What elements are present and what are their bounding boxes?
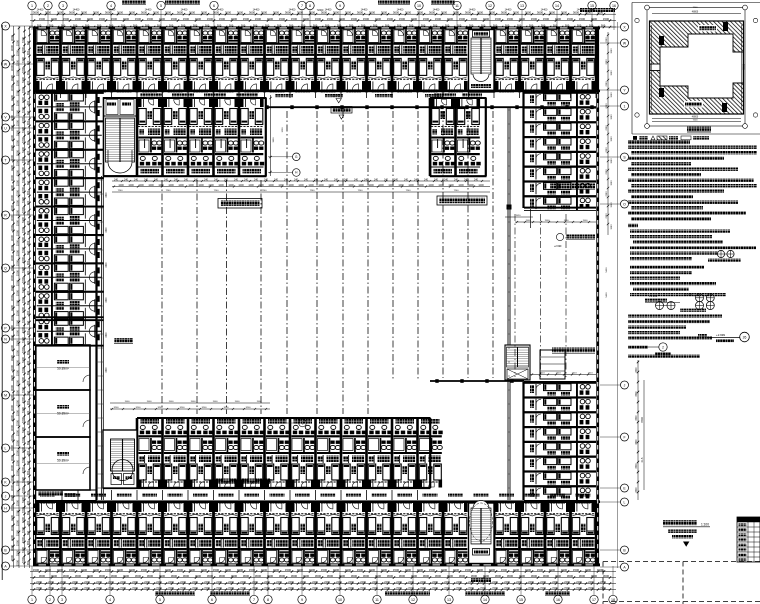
right band window gaps (597, 94, 599, 99)
svg-text:2400: 2400 (132, 580, 138, 584)
svg-text:7200: 7200 (168, 586, 174, 590)
svg-text:900: 900 (26, 210, 30, 215)
svg-text:3600: 3600 (10, 434, 14, 441)
svg-text:3600: 3600 (10, 504, 14, 511)
svg-text:3600: 3600 (10, 64, 14, 71)
svg-text:7200: 7200 (21, 506, 25, 513)
level mark with circle 26 (707, 337, 740, 339)
svg-text:3400: 3400 (106, 262, 108, 268)
svg-text:3600: 3600 (423, 574, 430, 578)
svg-text:7200: 7200 (72, 586, 78, 590)
bottom band room module 12 (316, 501, 341, 564)
svg-text:2400: 2400 (120, 580, 126, 584)
svg-text:2400: 2400 (228, 580, 234, 584)
svg-text:240: 240 (204, 178, 209, 181)
inner bottom wing module 12 (341, 418, 366, 488)
svg-text:7200: 7200 (228, 586, 234, 590)
bottom band room module 16 (418, 501, 443, 564)
left band room row 7 (36, 262, 104, 292)
svg-text:1500: 1500 (231, 17, 238, 21)
svg-text:7200: 7200 (360, 586, 366, 590)
svg-text:1200: 1200 (378, 184, 384, 187)
svg-text:3600: 3600 (429, 11, 436, 15)
top band bottom wall (33, 90, 600, 93)
svg-text:3600: 3600 (219, 574, 226, 578)
top band room module 9 (239, 29, 264, 92)
svg-text:1500: 1500 (15, 159, 19, 166)
svg-text:1500: 1500 (585, 568, 592, 572)
svg-text:900: 900 (26, 240, 30, 245)
svg-text:3600: 3600 (10, 414, 14, 421)
left band room row 3 (36, 149, 104, 179)
svg-text:1500: 1500 (519, 17, 526, 21)
interior dim chain at wing right (270, 95, 272, 176)
svg-text:240: 240 (474, 178, 479, 181)
svg-text:3600: 3600 (417, 11, 424, 15)
svg-text:7200: 7200 (21, 66, 25, 73)
left band room row 2 (36, 120, 104, 150)
svg-text:3600: 3600 (39, 574, 46, 578)
top band room module 19 (494, 29, 519, 92)
svg-text:1500: 1500 (15, 369, 19, 376)
svg-text:240: 240 (174, 178, 179, 181)
svg-text:3600: 3600 (10, 304, 14, 311)
svg-text:4: 4 (110, 4, 112, 8)
svg-text:2400: 2400 (420, 580, 426, 584)
right band lower room row 6 (524, 456, 596, 471)
svg-text:7200: 7200 (21, 486, 25, 493)
svg-text:240: 240 (304, 178, 309, 181)
svg-text:3600: 3600 (363, 574, 370, 578)
svg-text:1500: 1500 (147, 401, 153, 403)
svg-text:3600: 3600 (249, 11, 256, 15)
roof detail inner labels (698, 25, 717, 32)
svg-text:1500: 1500 (15, 169, 19, 176)
svg-text:14: 14 (555, 4, 559, 8)
svg-text:1500: 1500 (15, 539, 19, 546)
svg-text:7200: 7200 (21, 46, 25, 53)
svg-text:1500: 1500 (15, 189, 19, 196)
svg-text:1500: 1500 (303, 17, 310, 21)
svg-text:7200: 7200 (408, 586, 414, 590)
inner bottom wing module 6 (188, 418, 213, 488)
svg-text:7200: 7200 (180, 586, 186, 590)
right band room row 4 (524, 136, 596, 151)
inner bottom wing module 13 (367, 418, 392, 488)
svg-text:240: 240 (424, 178, 429, 181)
svg-text:L: L (5, 446, 7, 450)
svg-text:7200: 7200 (21, 496, 25, 503)
svg-text:2400: 2400 (408, 580, 414, 584)
svg-text:1500: 1500 (15, 359, 19, 366)
svg-text:7200: 7200 (21, 536, 25, 543)
svg-text:1200: 1200 (288, 184, 294, 187)
svg-text:240: 240 (384, 178, 389, 181)
note line 7 (628, 179, 754, 182)
svg-text:3600: 3600 (10, 374, 14, 381)
roof detail black blocks (723, 22, 728, 31)
svg-text:3600: 3600 (549, 11, 556, 15)
svg-text:900: 900 (26, 480, 30, 485)
bottom band room module 2 (61, 501, 86, 564)
svg-text:1200: 1200 (278, 184, 284, 187)
svg-text:1500: 1500 (183, 17, 190, 21)
svg-text:7200: 7200 (384, 586, 390, 590)
svg-text:3600: 3600 (10, 404, 14, 411)
svg-text:3600: 3600 (10, 44, 14, 51)
svg-text:7200: 7200 (21, 246, 25, 253)
svg-text:1500: 1500 (15, 549, 19, 556)
svg-text:1500: 1500 (159, 17, 166, 21)
small title labels above plan (122, 1, 146, 5)
svg-text:1500: 1500 (15, 449, 19, 456)
svg-text:7200: 7200 (21, 396, 25, 403)
svg-text:3083: 3083 (611, 202, 613, 208)
legend row (633, 136, 637, 140)
inner top wing module 4 (137, 98, 162, 176)
svg-text:1500: 1500 (279, 17, 286, 21)
svg-text:1500: 1500 (501, 568, 508, 572)
svg-text:3600: 3600 (636, 439, 638, 445)
svg-text:2383: 2383 (606, 213, 608, 219)
svg-text:1500: 1500 (15, 249, 19, 256)
svg-text:2400: 2400 (144, 580, 150, 584)
top band room module 2 (61, 29, 86, 92)
svg-text:1500: 1500 (405, 568, 412, 572)
svg-text:7200: 7200 (48, 586, 54, 590)
svg-text:7240: 7240 (262, 190, 268, 192)
top band room module 15 (392, 29, 417, 92)
svg-text:900: 900 (26, 190, 30, 195)
svg-text:3600: 3600 (477, 11, 484, 15)
left band room row 5 (36, 206, 104, 236)
svg-text:240: 240 (334, 178, 339, 181)
svg-text:1500: 1500 (15, 559, 19, 566)
svg-text:900: 900 (26, 140, 30, 145)
svg-text:3600: 3600 (369, 11, 376, 15)
svg-text:3600: 3600 (129, 11, 136, 15)
svg-text:7200: 7200 (21, 346, 25, 353)
svg-text:1500: 1500 (125, 401, 131, 403)
svg-text:5: 5 (159, 598, 161, 602)
svg-text:900: 900 (26, 490, 30, 495)
svg-text:900: 900 (26, 310, 30, 315)
svg-text:3600: 3600 (495, 574, 502, 578)
svg-text:3600: 3600 (10, 544, 14, 551)
svg-text:7240: 7240 (454, 190, 460, 192)
right band lower room row 4 (524, 426, 596, 441)
svg-text:J: J (624, 383, 626, 387)
note2 line 11 (633, 288, 689, 291)
inner bottom wing top wall (137, 417, 431, 419)
svg-text:1500: 1500 (177, 568, 184, 572)
svg-text:1500: 1500 (15, 409, 19, 416)
large room (36, 345, 90, 390)
svg-text:900: 900 (26, 440, 30, 445)
svg-text:7200: 7200 (21, 516, 25, 523)
svg-text:1500: 1500 (15, 99, 19, 106)
svg-text:1500: 1500 (213, 568, 220, 572)
svg-text:3200: 3200 (136, 407, 142, 409)
svg-text:7200: 7200 (60, 586, 66, 590)
svg-text:900: 900 (26, 400, 30, 405)
svg-text:7200: 7200 (96, 586, 102, 590)
svg-text:1200: 1200 (398, 184, 404, 187)
svg-text:1500: 1500 (225, 568, 232, 572)
svg-text:7200: 7200 (21, 276, 25, 283)
bottom underlined section labels (155, 591, 195, 594)
svg-text:L: L (624, 500, 626, 504)
svg-text:3600: 3600 (267, 574, 274, 578)
svg-text:900: 900 (26, 390, 30, 395)
bottom band room module 11 (290, 501, 315, 564)
svg-text:3600: 3600 (303, 574, 310, 578)
corridor room number smudges above wing (140, 93, 162, 96)
svg-text:900: 900 (26, 500, 30, 505)
svg-text:2400: 2400 (192, 580, 198, 584)
roof detail white courtyard cross (660, 34, 743, 98)
svg-text:3600: 3600 (636, 367, 638, 373)
svg-text:1500: 1500 (15, 319, 19, 326)
svg-text:6: 6 (211, 598, 213, 602)
svg-text:3083: 3083 (611, 180, 613, 186)
svg-text:1200: 1200 (158, 184, 164, 187)
svg-text:1500: 1500 (411, 17, 418, 21)
svg-text:17: 17 (592, 598, 596, 602)
svg-text:59.89m²: 59.89m² (57, 459, 69, 463)
left band room row 8 (36, 291, 104, 321)
svg-text:1500: 1500 (15, 399, 19, 406)
inner bottom wing module 11 (316, 418, 341, 488)
svg-text:1500: 1500 (165, 568, 172, 572)
svg-text:2400: 2400 (156, 580, 162, 584)
note line 5 (628, 168, 738, 171)
svg-text:3600: 3600 (339, 574, 346, 578)
svg-text:240: 240 (254, 178, 259, 181)
svg-text:2400: 2400 (48, 580, 54, 584)
interior grid bubbles G H (293, 153, 301, 161)
svg-text:1200: 1200 (428, 184, 434, 187)
svg-text:1500: 1500 (129, 568, 136, 572)
svg-text:7200: 7200 (21, 116, 25, 123)
svg-text:3600: 3600 (453, 11, 460, 15)
svg-text:1200: 1200 (188, 184, 194, 187)
svg-text:48000: 48000 (692, 12, 699, 14)
note line 6 (631, 173, 701, 176)
svg-text:3600: 3600 (69, 11, 76, 15)
svg-text:1200: 1200 (318, 184, 324, 187)
level symbol cluster (656, 302, 664, 310)
svg-text:7200: 7200 (504, 586, 510, 590)
bottom dimension chain rows (30, 571, 616, 573)
svg-text:11: 11 (375, 598, 379, 602)
svg-text:240: 240 (244, 178, 249, 181)
svg-text:3400: 3400 (106, 192, 108, 198)
svg-text:16: 16 (556, 598, 560, 602)
svg-text:2400: 2400 (216, 580, 222, 584)
svg-text:1500: 1500 (195, 17, 202, 21)
svg-text:7200: 7200 (21, 416, 25, 423)
svg-text:2400: 2400 (396, 580, 402, 584)
left band room row 6 (36, 234, 104, 264)
bottom band outer wall (33, 563, 600, 566)
svg-text:1500: 1500 (15, 289, 19, 296)
top band room module 13 (341, 29, 366, 92)
svg-text:3600: 3600 (447, 574, 454, 578)
right band upper end wall (524, 207, 596, 209)
svg-text:2400: 2400 (60, 580, 66, 584)
svg-text:1500: 1500 (321, 568, 328, 572)
svg-text:1500: 1500 (261, 568, 268, 572)
svg-text:3600: 3600 (171, 574, 178, 578)
right band room row 2 (524, 107, 596, 122)
svg-text:3600: 3600 (345, 11, 352, 15)
svg-text:3600: 3600 (465, 11, 472, 15)
svg-text:15: 15 (590, 4, 594, 8)
svg-text:7200: 7200 (21, 216, 25, 223)
svg-text:1500: 1500 (57, 568, 64, 572)
top band room module 11 (290, 29, 315, 92)
svg-text:900: 900 (26, 120, 30, 125)
svg-text:1500: 1500 (15, 349, 19, 356)
svg-text:3200: 3200 (158, 407, 164, 409)
svg-text:1200: 1200 (438, 184, 444, 187)
AC platform block right mid (540, 350, 565, 379)
note3 line 4 (628, 331, 680, 334)
svg-text:2383: 2383 (606, 147, 608, 153)
svg-text:1200: 1200 (448, 184, 454, 187)
svg-text:3600: 3600 (10, 174, 14, 181)
svg-text:M: M (4, 393, 7, 397)
svg-text:59.89m²: 59.89m² (57, 367, 69, 371)
inner wing stair core (104, 98, 138, 176)
svg-text:1500: 1500 (15, 339, 19, 346)
inner top wing right section (430, 97, 487, 99)
svg-text:1500: 1500 (525, 568, 532, 572)
svg-text:7200: 7200 (21, 136, 25, 143)
svg-text:2400: 2400 (72, 580, 78, 584)
svg-text:7200: 7200 (144, 586, 150, 590)
svg-text:240: 240 (194, 178, 199, 181)
svg-text:3600: 3600 (525, 11, 532, 15)
svg-text:7200: 7200 (432, 586, 438, 590)
bottom band room module 1 (35, 501, 60, 564)
bottom band room module 4 (112, 501, 137, 564)
svg-text:3600: 3600 (33, 11, 40, 15)
corridor ticks below bottom wing (111, 490, 113, 500)
svg-text:F: F (623, 435, 625, 439)
svg-text:3600: 3600 (459, 574, 466, 578)
svg-text:1500: 1500 (45, 568, 52, 572)
svg-text:3600: 3600 (333, 11, 340, 15)
svg-text:3600: 3600 (273, 11, 280, 15)
svg-text:1500: 1500 (81, 568, 88, 572)
svg-text:2400: 2400 (348, 580, 354, 584)
svg-text:1200: 1200 (168, 184, 174, 187)
circled ref under note3 (659, 343, 667, 351)
svg-text:1500: 1500 (213, 401, 219, 403)
svg-text:1200: 1200 (128, 184, 134, 187)
large room (36, 390, 90, 437)
svg-text:3600: 3600 (375, 574, 382, 578)
svg-text:1500: 1500 (429, 568, 436, 572)
svg-text:3600: 3600 (255, 574, 262, 578)
svg-text:3400: 3400 (106, 367, 108, 373)
svg-text:3600: 3600 (117, 11, 124, 15)
svg-text:7200: 7200 (216, 586, 222, 590)
bottom right mini table (737, 517, 760, 562)
svg-text:1200: 1200 (458, 184, 464, 187)
right band room row 5 (524, 151, 596, 166)
svg-text:1500: 1500 (15, 419, 19, 426)
svg-text:3600: 3600 (285, 11, 292, 15)
svg-text:1500: 1500 (33, 568, 40, 572)
svg-text:1200: 1200 (178, 184, 184, 187)
svg-text:1500: 1500 (537, 568, 544, 572)
svg-text:1500: 1500 (141, 568, 148, 572)
svg-text:1500: 1500 (255, 17, 262, 21)
svg-text:1500: 1500 (483, 17, 490, 21)
top band room module 22 (571, 29, 596, 92)
svg-text:1500: 1500 (423, 17, 430, 21)
svg-text:1500: 1500 (15, 479, 19, 486)
svg-text:1500: 1500 (471, 17, 478, 21)
svg-text:3200: 3200 (114, 407, 120, 409)
svg-text:7200: 7200 (300, 586, 306, 590)
svg-text:240: 240 (164, 178, 169, 181)
svg-text:2383: 2383 (606, 191, 608, 197)
svg-text:900: 900 (26, 80, 30, 85)
top band room module 6 (163, 29, 188, 92)
bottom band room module 8 (214, 501, 239, 564)
svg-text:8: 8 (267, 598, 269, 602)
inner bottom wing module 10 (290, 418, 315, 488)
left band bottom junction (36, 490, 97, 501)
svg-text:1500: 1500 (489, 568, 496, 572)
bottom band room module 6 (163, 501, 188, 564)
svg-text:7200: 7200 (192, 586, 198, 590)
note line 9 (628, 190, 724, 193)
svg-text:1200: 1200 (218, 184, 224, 187)
svg-text:3600: 3600 (10, 384, 14, 391)
svg-text:3600: 3600 (327, 574, 334, 578)
svg-text:T: T (4, 158, 6, 162)
svg-text:2400: 2400 (360, 580, 366, 584)
left band corridor walls (95, 92, 97, 500)
svg-text:7200: 7200 (21, 126, 25, 133)
svg-text:3600: 3600 (10, 394, 14, 401)
svg-text:900: 900 (26, 250, 30, 255)
svg-text:3083: 3083 (611, 70, 613, 76)
svg-text:1500: 1500 (93, 568, 100, 572)
left corridor ticks (97, 179, 104, 181)
note line 12 (631, 206, 703, 209)
right band lower room row 7 (524, 471, 596, 486)
svg-text:1200: 1200 (118, 184, 124, 187)
svg-text:900: 900 (26, 170, 30, 175)
svg-text:3600: 3600 (123, 574, 130, 578)
svg-text:900: 900 (26, 160, 30, 165)
svg-text:1200: 1200 (408, 184, 414, 187)
svg-text:1500: 1500 (15, 69, 19, 76)
note2 line 6 (630, 257, 692, 260)
svg-text:3200: 3200 (202, 407, 208, 409)
svg-text:3600: 3600 (513, 11, 520, 15)
svg-text:O: O (623, 202, 626, 206)
svg-text:5400: 5400 (606, 292, 608, 298)
svg-text:12: 12 (488, 4, 492, 8)
top band room module 14 (367, 29, 392, 92)
